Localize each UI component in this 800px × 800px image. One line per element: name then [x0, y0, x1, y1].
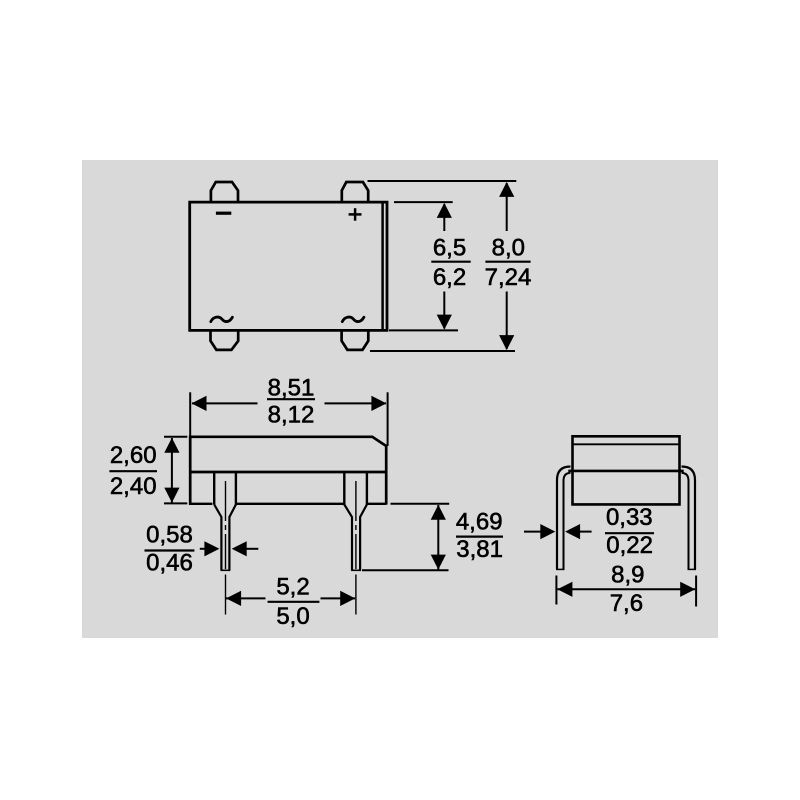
- svg-text:0,33: 0,33: [606, 504, 653, 531]
- svg-text:3,81: 3,81: [456, 536, 503, 563]
- svg-text:8,0: 8,0: [492, 234, 525, 261]
- svg-text:0,22: 0,22: [606, 532, 653, 559]
- svg-text:0,46: 0,46: [146, 550, 193, 577]
- svg-text:8,51: 8,51: [268, 375, 315, 402]
- svg-text:5,0: 5,0: [276, 603, 309, 630]
- svg-text:0,58: 0,58: [146, 522, 193, 549]
- svg-text:5,2: 5,2: [276, 573, 309, 600]
- svg-text:4,69: 4,69: [456, 508, 503, 535]
- svg-text:8,12: 8,12: [268, 402, 315, 429]
- svg-text:6,2: 6,2: [433, 264, 466, 291]
- svg-text:7,6: 7,6: [610, 590, 643, 617]
- svg-text:2,40: 2,40: [110, 473, 157, 500]
- svg-text:8,9: 8,9: [611, 562, 644, 589]
- svg-text:6,5: 6,5: [433, 234, 466, 261]
- svg-text:2,60: 2,60: [110, 442, 157, 469]
- svg-text:7,24: 7,24: [485, 264, 532, 291]
